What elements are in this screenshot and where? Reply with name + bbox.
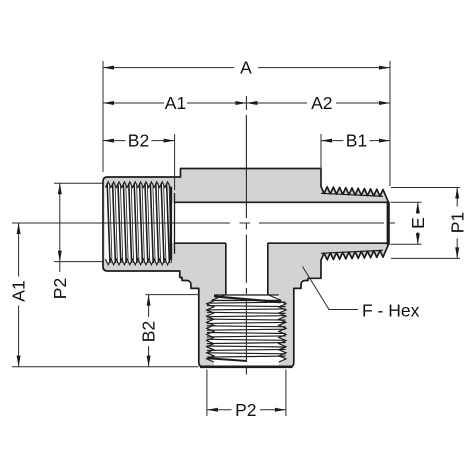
- tee fitting body (section, gray): [103, 169, 389, 367]
- male thread root line top: [321, 193, 383, 196]
- A1 arrows: [103, 101, 114, 105]
- branch bore (white): [227, 240, 267, 294]
- vertical centerline: [245, 96, 247, 375]
- branch chamfer line 1: [214, 294, 279, 296]
- P1 ext lines: [391, 188, 460, 259]
- B2-branch ext line: [146, 294, 199, 296]
- arrowheads: [17, 66, 460, 412]
- ext line right x=390: [389, 61, 391, 186]
- dim B2-top line: [103, 140, 175, 142]
- P2-bottom ext lines: [207, 370, 286, 417]
- left port female thread top zigzag (white teeth): [106, 182, 171, 188]
- svg-text:E: E: [408, 217, 428, 229]
- B1 arrows: [321, 139, 332, 143]
- branch chamfer slant right: [268, 295, 281, 301]
- left port female thread bottom zigzag (white teeth): [106, 259, 171, 265]
- branch chamfer slant left: [212, 295, 226, 301]
- A2 arrows: [246, 101, 257, 105]
- branch chamfer line 2: [212, 299, 282, 301]
- branch bore left wall: [225, 243, 227, 294]
- A1-left arrows: [17, 223, 21, 234]
- svg-text:A1: A1: [9, 280, 29, 301]
- branch bore right wall: [267, 243, 269, 294]
- dim B1 line: [321, 140, 390, 142]
- dim A1 line: [103, 102, 246, 104]
- left port thread flank strokes: [107, 184, 169, 264]
- male end face (thick): [387, 202, 390, 245]
- B2-top arrows: [103, 139, 114, 143]
- svg-text:B2: B2: [139, 321, 159, 342]
- E dim line: [417, 202, 419, 244]
- dim A2 line: [246, 102, 390, 104]
- ext line B2-top right x=174.6: [174, 134, 176, 190]
- branch thread start dark band: [214, 296, 281, 302]
- branch thread end dark band: [208, 358, 247, 361]
- main bore (white): [172, 203, 388, 242]
- A1-left dim line: [18, 223, 20, 367]
- branch thread right zigzag (white teeth): [279, 301, 286, 362]
- DIMENSIONS: [12, 61, 460, 416]
- left port thread relief line: [174, 193, 176, 254]
- svg-text:B2: B2: [128, 131, 149, 151]
- E ext lines: [391, 202, 422, 244]
- A1-left bottom ext line: [12, 366, 199, 368]
- horizontal centerline: [12, 222, 395, 224]
- bore top line: [175, 201, 389, 203]
- bore bottom line right: [268, 242, 388, 244]
- branch bottom face (thick): [200, 365, 293, 368]
- B2-branch arrows: [147, 295, 151, 306]
- P2-left ext lines: [54, 183, 104, 261]
- svg-text:B1: B1: [346, 131, 367, 151]
- left port thread end face: [170, 187, 172, 260]
- B2-branch dim line: [148, 295, 150, 367]
- P2-left arrows: [58, 183, 62, 194]
- svg-text:A2: A2: [311, 93, 332, 113]
- P2-bottom arrows: [207, 408, 218, 412]
- A arrows: [103, 66, 114, 70]
- P2-left dim line: [59, 183, 61, 272]
- svg-text:F - Hex: F - Hex: [362, 300, 420, 320]
- P2-bottom dim line: [207, 409, 286, 411]
- F-Hex leader: [303, 267, 359, 310]
- P1 arrows: [455, 188, 459, 199]
- E arrows: [416, 202, 420, 213]
- svg-text:A1: A1: [165, 93, 186, 113]
- ext line left x=103: [102, 61, 104, 172]
- dim A line: [103, 67, 390, 69]
- P1 dim line: [456, 188, 458, 259]
- branch thread rows: [207, 302, 286, 357]
- left port thread cavity (white): [105, 187, 171, 259]
- svg-text:P1: P1: [447, 212, 467, 233]
- branch thread cavity (white): [214, 295, 279, 366]
- svg-text:P2: P2: [235, 400, 256, 420]
- male thread root line bottom: [321, 250, 383, 253]
- svg-text:P2: P2: [50, 278, 70, 299]
- bore bottom line left: [175, 242, 226, 244]
- ext line B1 left x=321: [320, 134, 322, 184]
- svg-text:A: A: [240, 58, 252, 78]
- branch thread left zigzag (white teeth): [207, 301, 214, 362]
